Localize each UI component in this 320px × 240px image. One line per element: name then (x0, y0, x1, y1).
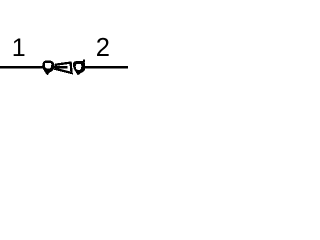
svg-text:1: 1 (12, 34, 26, 62)
switch shaft wire (53, 66, 68, 69)
wire right (pin 2 lead) (85, 66, 129, 69)
arrowhead triangle (55, 63, 71, 73)
wire left (pin 1 lead) (0, 66, 43, 69)
contact circle left (hand-drawn ring) (42, 60, 54, 75)
contact circle right (hand-drawn ring with pointed bottom) (73, 61, 85, 75)
svg-text:2: 2 (96, 34, 110, 62)
circle right top tick (83, 60, 85, 62)
